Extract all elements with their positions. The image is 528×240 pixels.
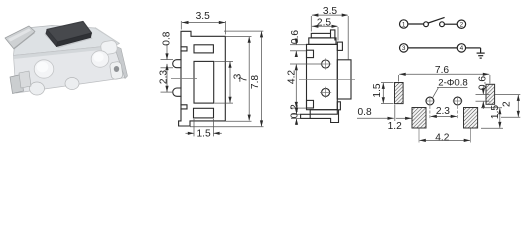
- svg-text:1.5: 1.5: [372, 83, 383, 97]
- svg-text:3.5: 3.5: [323, 6, 337, 17]
- svg-text:7.8: 7.8: [250, 75, 261, 89]
- svg-text:2.3: 2.3: [436, 106, 450, 117]
- svg-text:1.2: 1.2: [388, 121, 402, 132]
- svg-text:2.5: 2.5: [317, 18, 331, 29]
- svg-text:2: 2: [502, 101, 513, 107]
- svg-text:1.5: 1.5: [197, 129, 211, 140]
- svg-text:7: 7: [239, 76, 250, 82]
- svg-text:0.6: 0.6: [290, 30, 301, 44]
- svg-text:1.5: 1.5: [490, 105, 501, 119]
- svg-text:3: 3: [402, 45, 406, 52]
- svg-text:0.2: 0.2: [290, 104, 301, 118]
- svg-text:2.3: 2.3: [159, 70, 170, 84]
- svg-text:4.2: 4.2: [287, 70, 298, 84]
- svg-text:3.5: 3.5: [196, 11, 210, 22]
- svg-text:0.8: 0.8: [162, 31, 173, 45]
- svg-text:7.6: 7.6: [435, 65, 449, 76]
- svg-text:0.6: 0.6: [478, 76, 489, 90]
- svg-text:1: 1: [402, 21, 406, 28]
- svg-text:2-Φ0.8: 2-Φ0.8: [438, 78, 468, 89]
- svg-text:4: 4: [460, 45, 464, 52]
- svg-text:0.8: 0.8: [358, 107, 372, 118]
- svg-text:2: 2: [460, 22, 464, 29]
- svg-text:4.2: 4.2: [435, 133, 449, 144]
